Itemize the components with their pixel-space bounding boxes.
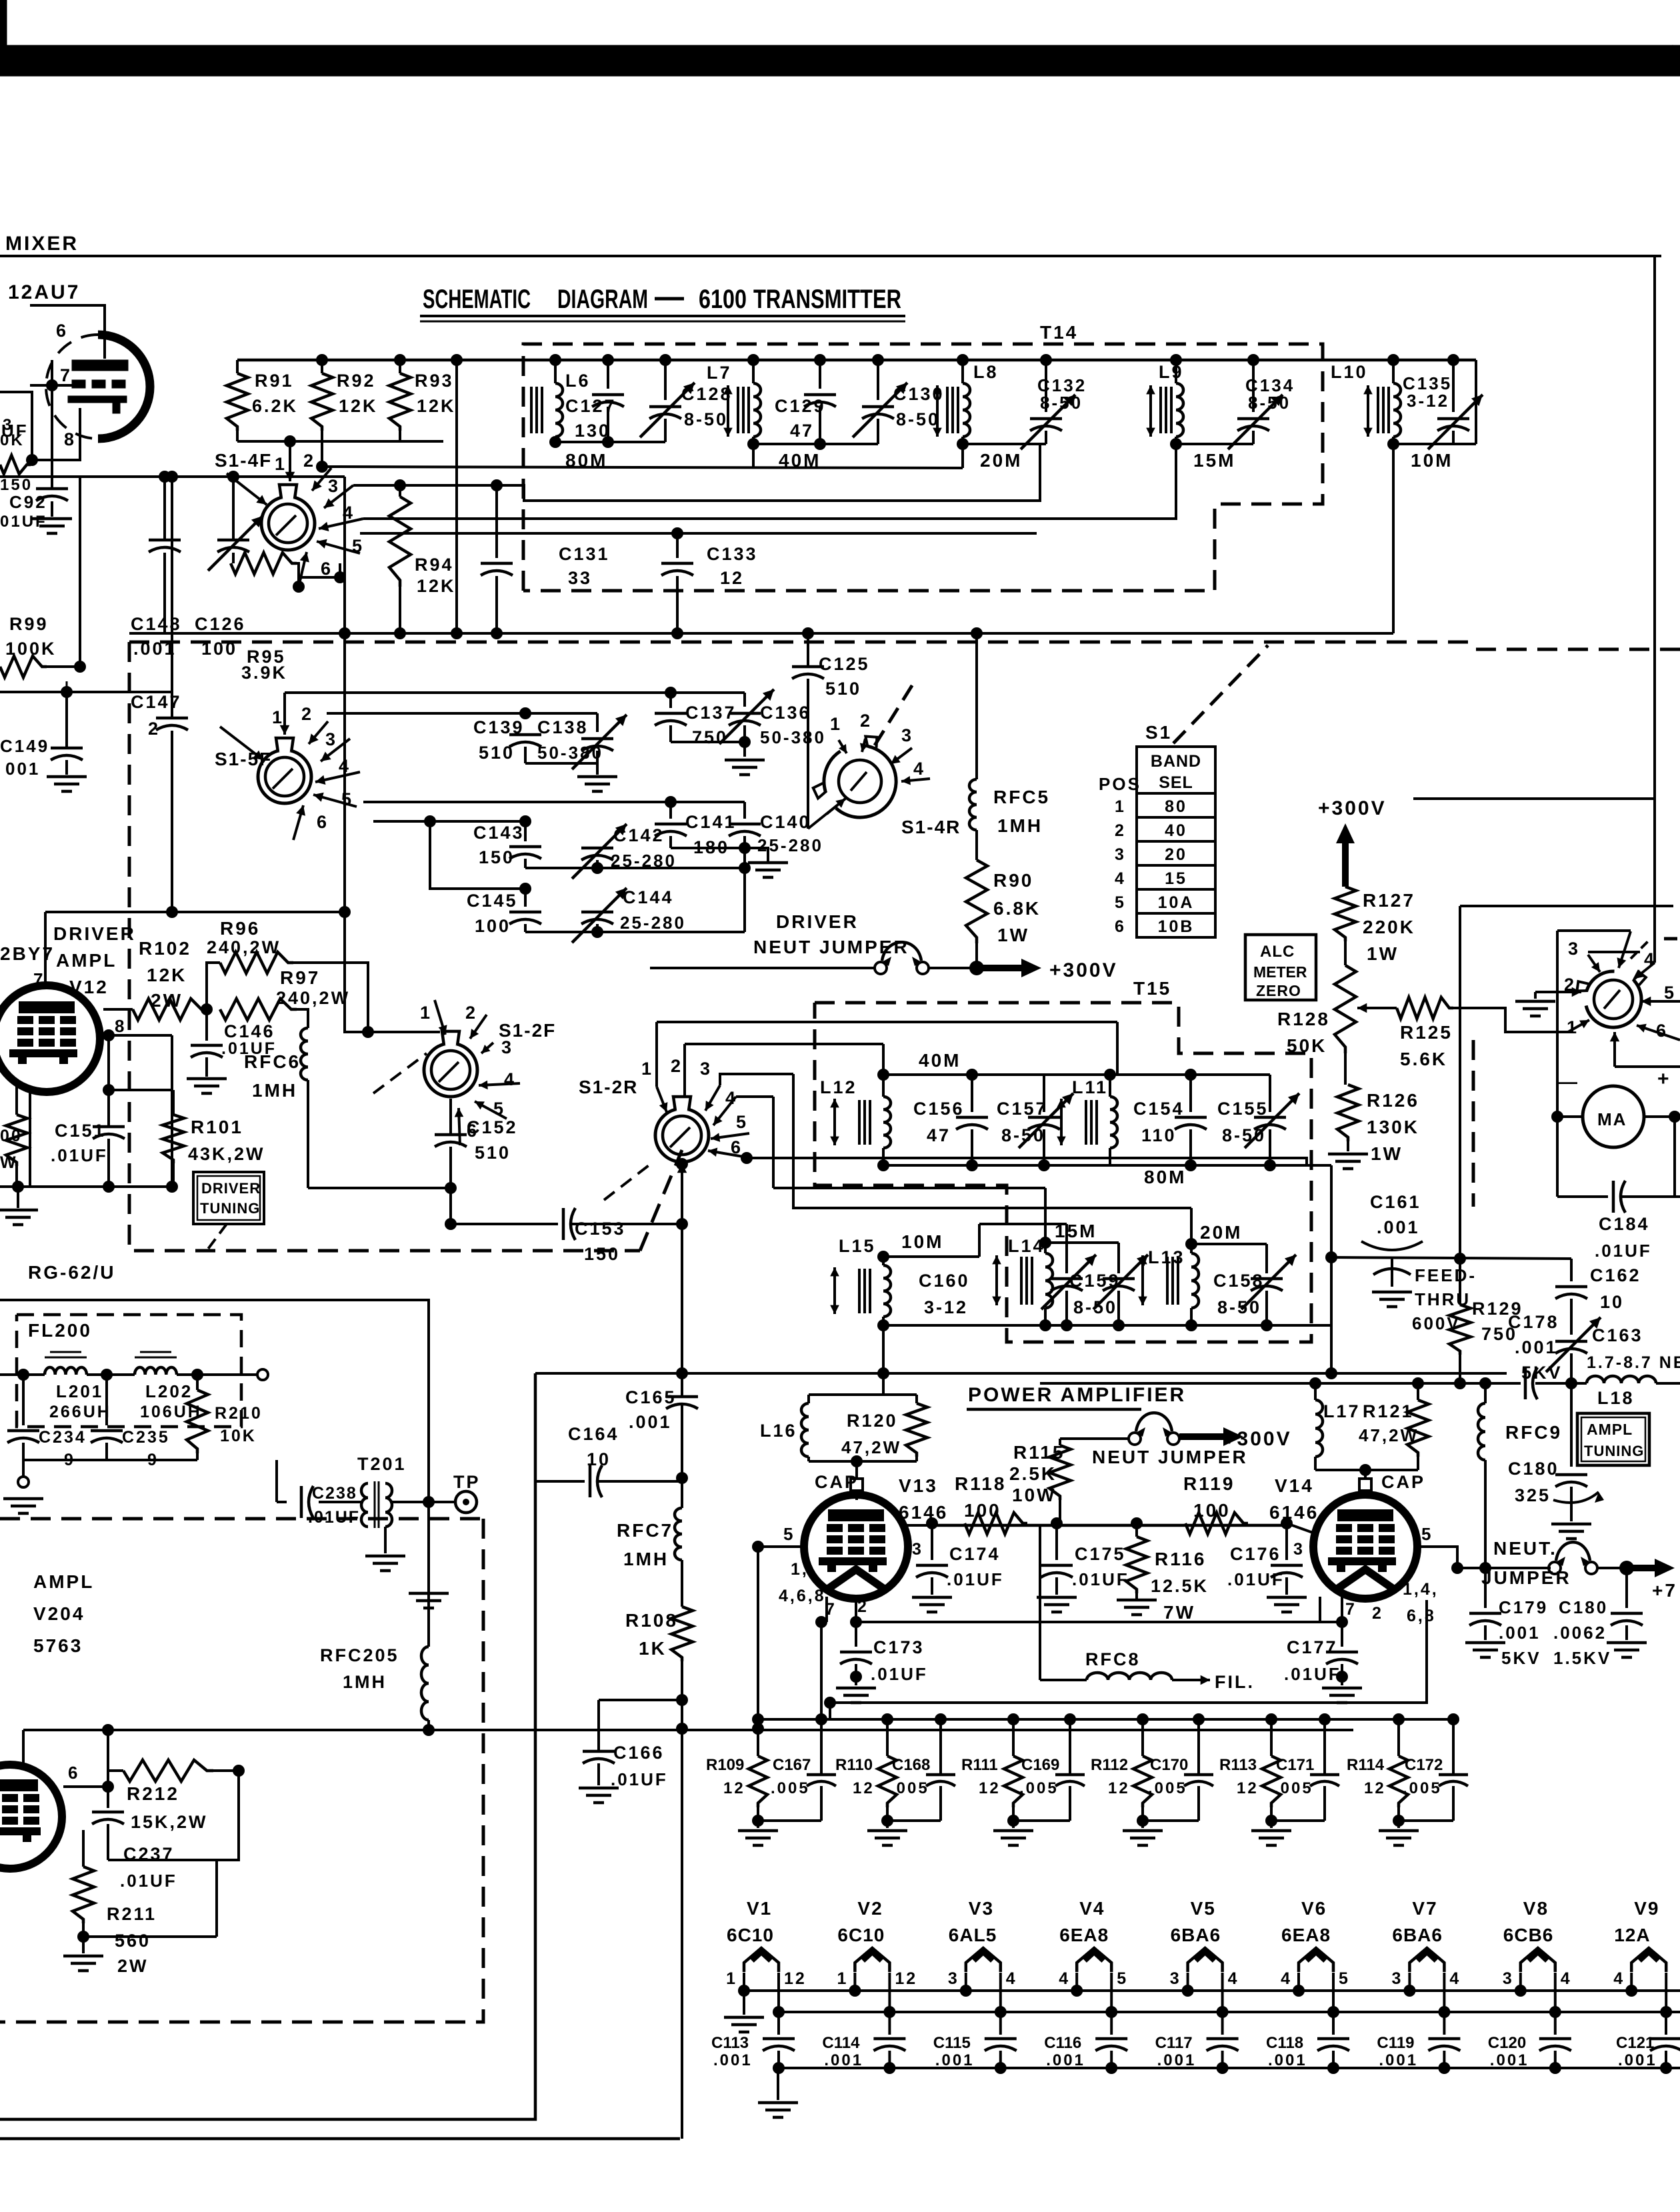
svg-text:1: 1 [420,1003,432,1023]
wire pos4 to 15M return [363,444,1176,519]
wire 80M to x1997 [1330,1165,1333,1257]
junction C114 bus3 [883,2062,895,2074]
svg-text:RFC8: RFC8 [1085,1649,1141,1669]
svg-text:6146: 6146 [1269,1502,1319,1523]
svg-text:L12: L12 [820,1077,857,1097]
wire pos4 S1-5F row [363,801,671,803]
svg-text:510: 510 [475,1143,511,1163]
svg-text:C184: C184 [1599,1214,1650,1234]
label R97 240 2W [276,967,350,1008]
junction R111 top [1007,1713,1019,1725]
label C126 100 [195,614,246,659]
svg-text:MA: MA [1597,1109,1627,1129]
svg-text:5763: 5763 [33,1635,83,1656]
resistor R112 [1133,1719,1152,1821]
junction C140 bottom [739,842,751,854]
svg-text:4: 4 [1006,1969,1017,1988]
inductor L8 [963,360,970,444]
label 40M T15 [919,1050,961,1071]
svg-text:8: 8 [64,429,76,449]
label UF fragment [1,421,29,441]
junction bus y1038 [61,686,73,698]
junction C140 low [739,862,751,874]
svg-text:4: 4 [1449,1969,1461,1988]
junction L9 bottom [1170,438,1182,450]
svg-text:R96: R96 [220,918,260,939]
dashed right x2210 [1472,1040,1475,1207]
label TP [453,1472,481,1492]
junction pa grid left [752,1541,764,1553]
svg-text:RFC6: RFC6 [244,1051,301,1072]
junction C133 top [671,527,683,539]
svg-text:6146: 6146 [899,1502,948,1523]
wire L14 feed [773,1188,1045,1243]
capacitor C127 [592,360,624,442]
svg-text:47: 47 [790,421,814,441]
pin 1 V1 [726,1969,737,1988]
junction L13 top [1185,1238,1197,1250]
pos5 arrow S1-2R [711,1112,749,1142]
junction 10M bus [877,1367,889,1379]
table BAND SEL [1137,747,1215,937]
svg-text:C152: C152 [467,1117,518,1137]
wire R108 down [681,1661,683,2139]
wire 20M to bus [1267,1257,1331,1373]
transformer T201 [319,1481,440,1528]
junction y1888 x2190 [1454,1253,1466,1265]
svg-text:2BY7: 2BY7 [0,943,55,964]
wire neut bus [1457,1567,1551,1569]
inductor RFC8 [1087,1673,1172,1680]
pin 3 V5 [1170,1969,1181,1988]
junction spine y1368 [339,906,351,918]
label S1-2R [579,1077,638,1097]
wire S1-2R pos6 bus [747,1158,1307,1165]
core L6 [531,387,542,433]
label R109 12 [706,1756,745,1797]
label C144 25-280 [620,887,686,933]
resistor R92 [311,360,333,467]
junction cathode [26,454,38,466]
svg-text:V7: V7 [1412,1898,1437,1919]
wire V13 cath to bus [815,1616,827,1719]
svg-text:8-50: 8-50 [1073,1297,1117,1317]
pos2 label S1-2R [671,1056,683,1076]
wire pos5 S1-5F row [373,820,430,823]
junction pos6 b [334,571,346,583]
junction cath x1245 [824,1697,836,1709]
wire R90 to jumper [975,943,978,968]
junction L15 top [877,1251,889,1263]
label C163 [1587,1325,1680,1372]
capacitor C136 variable [719,689,774,744]
svg-text:C173: C173 [873,1637,925,1657]
wire pos5 to 10A [360,532,1037,535]
junction y1780 b [103,1181,115,1193]
svg-text:80M: 80M [1144,1167,1186,1187]
svg-text:C145: C145 [467,891,518,911]
label C114 .001 [822,2034,863,2069]
svg-text:C141: C141 [685,812,737,832]
svg-text:C163: C163 [1592,1325,1643,1345]
svg-text:.01UF: .01UF [1284,1664,1341,1684]
junction V7 bus2 [1438,2006,1450,2018]
core L9 [1161,387,1171,433]
svg-text:DRIVER: DRIVER [53,923,136,944]
capacitor C158 variable [1241,1244,1296,1325]
svg-text:12AU7: 12AU7 [8,281,80,303]
resistor R126 [1337,1085,1359,1141]
wire 40M rail [753,443,878,445]
wire pos6 jog S1-5F [430,821,525,889]
dashed driver tuning pointer [207,1224,227,1251]
svg-text:C142: C142 [613,825,665,845]
pos5 arrow S1-4F [317,536,364,556]
svg-text:4: 4 [1228,1969,1239,1988]
svg-text:1: 1 [1115,797,1126,816]
svg-text:R128: R128 [1277,1009,1330,1029]
wire jumper right out [1597,1567,1627,1569]
capacitor C92 [36,385,68,517]
svg-text:RFC205: RFC205 [320,1645,399,1665]
svg-text:40M: 40M [779,450,821,471]
resistor R118 [965,1513,1027,1534]
junction L10 bottom [1387,438,1399,450]
junction C153 S1-2R [676,1218,688,1230]
wire coax drop [427,1300,430,1502]
wire R109 C167 bottom [758,1819,821,1822]
wire V13 screen right [907,1524,932,1527]
pos6 diag S1-4R [808,799,845,829]
svg-text:1W: 1W [1371,1143,1403,1164]
label R110 12 [835,1756,875,1797]
wire C152 to C153 row [451,1223,682,1225]
ground FL200 [3,1499,43,1513]
svg-text:.001: .001 [1157,2051,1197,2069]
label C154 110 [1133,1099,1185,1145]
svg-text:1MH: 1MH [252,1080,297,1101]
svg-text:DRIVER: DRIVER [201,1180,261,1197]
resistor R129 [1449,1260,1471,1383]
junction C128 top [659,354,671,366]
label +300V right [1318,797,1387,819]
label C127 130 [565,396,617,441]
svg-text:L9: L9 [1159,362,1184,382]
capacitor C115 [985,2012,1017,2068]
dashed S1-2F shaft [373,1053,427,1093]
svg-text:ZERO: ZERO [1256,982,1301,999]
svg-text:METER: METER [1253,963,1307,981]
wire plate pin6 [30,305,105,359]
svg-text:8-50: 8-50 [896,409,940,429]
label C170 .005 [1148,1756,1188,1797]
wire pos4 feed C140 [671,801,745,803]
junction spine y950 [339,627,351,639]
border line outer [0,2137,680,2141]
label V6 type 6EA8 [1281,1925,1331,1945]
capacitor C153 [563,1208,575,1240]
hash L202 [135,1352,177,1357]
svg-text:C154: C154 [1133,1099,1185,1119]
junction L14 bottom [1039,1319,1051,1331]
pos2 arrow S1-5F [301,704,328,744]
inductor L9 [1176,360,1183,444]
label V1 [747,1898,772,1919]
junction R94 bottom [394,627,406,639]
label R102 12K 2W [139,938,191,1011]
svg-text:C149: C149 [0,736,49,756]
svg-text:5: 5 [1339,1969,1350,1988]
return bus y950 [129,632,1393,635]
tube heater V1 [744,1948,779,1972]
junction R113 top [1265,1713,1277,1725]
svg-text:R121: R121 [1363,1401,1414,1421]
junction L13 bottom [1185,1319,1197,1331]
pin 4 V4 [1059,1969,1070,1988]
wire R bank bottom bus [237,440,443,443]
svg-text:4,6,8: 4,6,8 [779,1587,826,1605]
svg-text:15M: 15M [1055,1221,1097,1241]
core L11 [1086,1100,1097,1145]
label 80M [565,450,607,471]
tube heater V8 [1521,1948,1555,1972]
label pin2 V14 [1372,1604,1383,1623]
pos6 arrow S1-4F [299,552,333,587]
svg-text:01UF: 01UF [0,513,47,531]
junction x1997 y1886 [1325,1251,1337,1263]
inductor L6 [555,360,563,442]
inductor L7 [753,360,761,444]
pos3 arrow S1-4F [324,476,353,508]
junction C134 top [1247,354,1259,366]
svg-text:6100: 6100 [699,285,747,314]
wire R212 col [107,1730,109,1808]
feed bus y540 [237,359,1476,362]
feedthru C161 [1372,1259,1412,1307]
svg-text:20: 20 [1165,845,1187,864]
resistor R97 [220,999,297,1020]
wire C237 bottom [108,1771,239,1860]
ground C175 [1037,1597,1077,1612]
svg-text:.001: .001 [713,2051,753,2069]
svg-text:C160: C160 [919,1271,970,1291]
capacitor C142 variable [572,824,627,879]
svg-text:AMPL: AMPL [56,950,117,971]
label DRIVER AMPL V12 [53,923,136,997]
capacitor C175 [1041,1523,1073,1595]
suppressor bus y2579 [758,1718,1453,1721]
junction V6 bus1 [1293,1985,1305,1997]
pos1 arrow S1-3R [1567,1017,1589,1037]
wire C140 to C142 row [743,848,746,932]
wire V12 to R102 [103,1008,133,1011]
svg-text:.01UF: .01UF [611,1769,668,1789]
label V7 [1412,1898,1437,1919]
ground pos2 [1515,992,1555,1016]
svg-text:1,: 1, [791,1560,809,1579]
wire bus y1038 [0,691,172,693]
capacitor C184 inline [1613,1181,1625,1213]
svg-text:6C10: 6C10 [727,1925,774,1945]
svg-text:.01UF: .01UF [51,1145,108,1165]
svg-text:R119: R119 [1183,1473,1235,1494]
junction pos1 [284,435,296,447]
junction y1780 a [12,1181,24,1193]
wire V6 left pin [1297,1973,1300,1991]
label C184 .01UF [1595,1214,1652,1261]
tank rail 40M bottom [883,1164,1110,1167]
ground C173 [836,1677,876,1703]
inductor L18 [1587,1376,1656,1383]
svg-text:8-50: 8-50 [1001,1125,1045,1145]
switch S1-2R [655,1097,709,1162]
inductor RFC7 [675,1481,682,1560]
resistor R115 [1049,1439,1071,1523]
wire S1-2R pos4 [772,1097,775,1188]
junction meter right [1669,1111,1680,1123]
+300V arrow driver [977,959,1041,977]
svg-text:7: 7 [1345,1600,1357,1619]
wire V7 right pin [1443,1973,1445,2012]
title SCHEMATIC DIAGRAM - 6100 TRANSMITTER [420,285,905,321]
junction R90 bus [971,627,983,639]
junction C116 bus3 [1105,2062,1117,2074]
wire pa grid bus [758,1545,805,1548]
svg-text:V9: V9 [1634,1898,1659,1919]
wire C145 C144 row [525,931,745,933]
junction R111 bottom [1007,1815,1019,1827]
svg-text:C131: C131 [559,544,610,564]
label V4 [1079,1898,1105,1919]
svg-text:C92: C92 [9,492,47,512]
label driver tuning box [193,1172,264,1224]
svg-text:266UH: 266UH [49,1403,111,1421]
svg-text:S1-2R: S1-2R [579,1077,638,1097]
tuning arrow L8 [933,385,942,437]
inductor L10 [1393,360,1401,444]
svg-text:1MH: 1MH [343,1672,387,1692]
junction C133 bottom [671,627,683,639]
svg-text:100: 100 [1193,1500,1231,1521]
label R126 130K 1W [1367,1090,1419,1164]
label L15 [839,1236,876,1256]
svg-text:510: 510 [825,679,861,699]
junction L6 top [549,354,561,366]
junction C177 top [1336,1616,1348,1628]
junction C139 top [519,707,531,719]
label pin5 V13 [783,1524,795,1544]
label S1-4F [215,450,272,471]
svg-text:L7: L7 [707,363,732,383]
svg-text:TRANSMITTER: TRANSMITTER [753,285,901,314]
wire R128 R126 [1344,1053,1347,1085]
svg-text:8: 8 [115,1016,126,1036]
pos4 arrow S1-5F [315,756,360,785]
svg-text:C127: C127 [565,396,617,416]
svg-text:3: 3 [1170,1969,1181,1988]
wire R110 C168 bottom [887,1819,941,1822]
label C172 .005 [1403,1756,1443,1797]
capacitor C176 [1271,1523,1303,1595]
svg-text:560: 560 [115,1931,151,1951]
resistor R212 [123,1760,213,1781]
wire pos3 to 20M return [353,444,1040,501]
junction jumper out [1619,1561,1634,1575]
ground heater bus3 [758,2068,798,2117]
svg-text:T15: T15 [1133,978,1171,999]
cap top V13 [851,1479,863,1495]
wire C137 C136 bottom [671,742,745,757]
wire V7 left pin [1408,1973,1411,1991]
svg-text:C158: C158 [1213,1271,1265,1291]
svg-text:6: 6 [1115,917,1126,936]
label +750V [1652,1580,1677,1601]
dashed right y974 [1476,648,1680,651]
switch S1-4F [261,485,315,550]
label pin8 V12 [115,1016,126,1036]
svg-text:C146: C146 [224,1021,275,1041]
label C118 .001 [1266,2034,1307,2069]
label C161 .001 [1361,1192,1423,1250]
svg-text:R99: R99 [9,614,49,634]
pos numbers [1115,797,1126,936]
top border black bar [0,0,1680,76]
wire RFC5 to R90 [975,830,978,860]
wire V14 cathode right [830,1600,1427,1703]
tank rail 80M top [1110,1073,1270,1076]
pos6 arrow S1-2F [455,1108,479,1145]
svg-text:.001: .001 [1490,2051,1529,2069]
svg-text:1W: 1W [1367,943,1399,964]
svg-text:L16: L16 [760,1421,797,1441]
heater bus 1 [744,1989,1680,1992]
label C125 510 [819,654,870,699]
screen bus [932,1524,1287,1527]
capacitor C179 [1469,1568,1501,1640]
capacitor C131 [481,485,513,633]
resistor R98 stub [0,455,31,474]
tank rail 10M bottom [883,1324,1067,1327]
wire V13 plate [855,1495,858,1500]
wire R95 right [297,563,299,577]
svg-text:L201: L201 [56,1381,103,1401]
junction y1780 c [166,1181,178,1193]
wire 40M return drop [752,444,755,467]
resistor R99 [0,656,47,677]
svg-text:L11: L11 [1072,1077,1108,1097]
wire R114 C172 bottom [1399,1819,1453,1822]
svg-text:12: 12 [1108,1779,1130,1797]
pos5 arrow S1-5F [313,789,357,809]
inductor L202 [135,1367,177,1375]
svg-text:FEED-: FEED- [1415,1265,1477,1285]
wire 80M rail [555,441,665,443]
wire x2336 [1556,931,1559,1197]
label V2 [857,1898,883,1919]
wire V6 right pin [1332,1973,1335,2012]
label 10M T15 [901,1231,943,1252]
ground R110 [867,1821,907,1845]
svg-text:5: 5 [1115,893,1126,912]
svg-text:0K: 0K [0,431,25,449]
capacitor C238 [301,1486,313,1518]
capacitor C157 variable [1019,1075,1073,1165]
wire C141 C140 bottom [671,847,745,849]
wire driver jumper left [650,967,875,969]
label pin3 V14 [1293,1540,1305,1559]
svg-text:1,4,: 1,4, [1403,1580,1439,1599]
label T201 [357,1454,407,1474]
